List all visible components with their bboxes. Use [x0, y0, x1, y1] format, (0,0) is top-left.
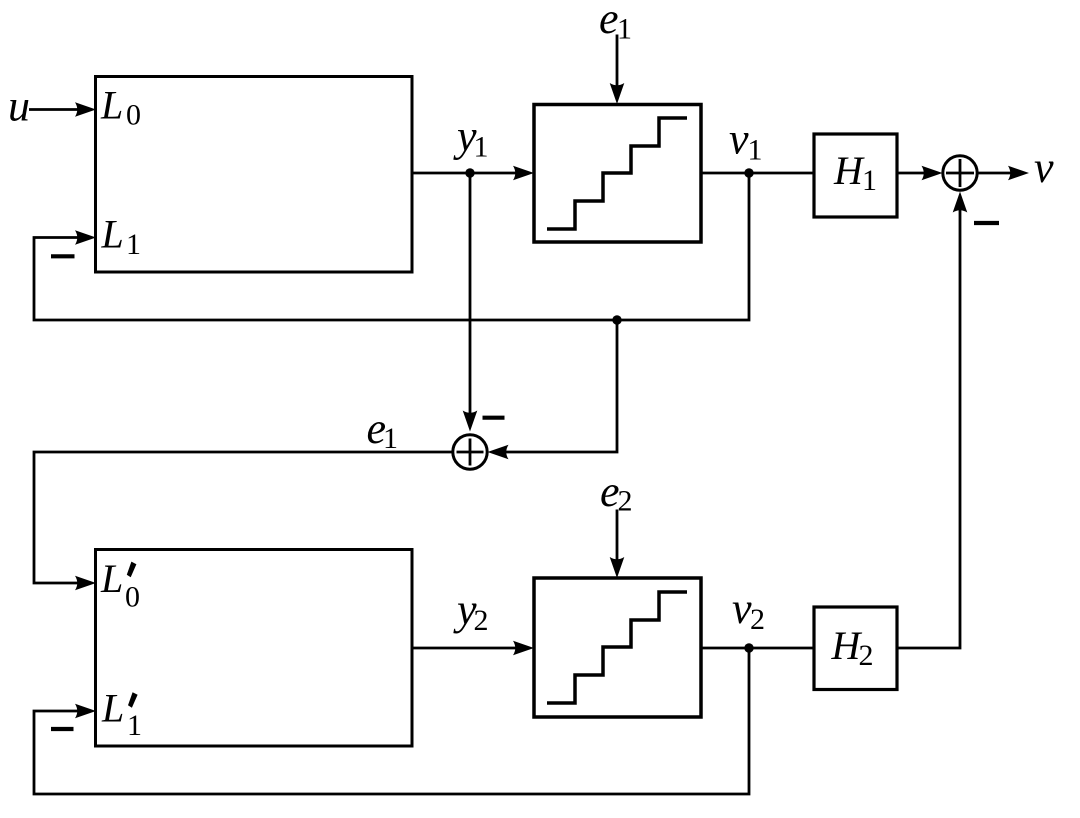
svg-text:u: u [8, 82, 30, 131]
svg-text:0: 0 [126, 99, 141, 132]
svg-text:H: H [833, 148, 865, 193]
svg-text:1: 1 [383, 422, 398, 455]
svg-text:L: L [101, 212, 124, 257]
svg-text:1: 1 [127, 709, 142, 742]
svg-text:v: v [729, 115, 749, 164]
svg-text:2: 2 [859, 639, 874, 672]
svg-text:1: 1 [474, 131, 489, 164]
svg-text:v: v [732, 584, 752, 633]
svg-text:2: 2 [750, 603, 765, 636]
svg-text:1: 1 [126, 228, 141, 261]
svg-text:0: 0 [125, 581, 140, 614]
svg-text:v: v [1034, 143, 1054, 192]
svg-text:L: L [100, 83, 123, 128]
svg-text:e: e [599, 0, 619, 43]
svg-text:L: L [100, 556, 123, 601]
svg-text:1: 1 [617, 13, 632, 46]
svg-text:2: 2 [474, 604, 489, 637]
svg-text:1: 1 [748, 134, 763, 167]
svg-text:1: 1 [862, 164, 877, 197]
svg-text:2: 2 [618, 485, 633, 518]
svg-text:L: L [101, 686, 124, 731]
